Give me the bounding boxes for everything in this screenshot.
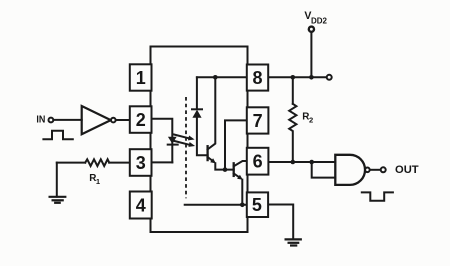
svg-text:4: 4 (136, 196, 146, 216)
svg-text:DD2: DD2 (311, 16, 328, 25)
svg-text:1: 1 (136, 68, 146, 88)
svg-text:2: 2 (136, 110, 146, 130)
svg-text:3: 3 (136, 153, 146, 173)
svg-text:6: 6 (253, 152, 263, 172)
svg-text:8: 8 (252, 68, 262, 88)
svg-text:7: 7 (253, 111, 263, 131)
svg-text:IN: IN (36, 115, 45, 126)
svg-text:5: 5 (252, 195, 262, 215)
svg-text:2: 2 (309, 115, 313, 124)
svg-text:OUT: OUT (395, 164, 419, 176)
